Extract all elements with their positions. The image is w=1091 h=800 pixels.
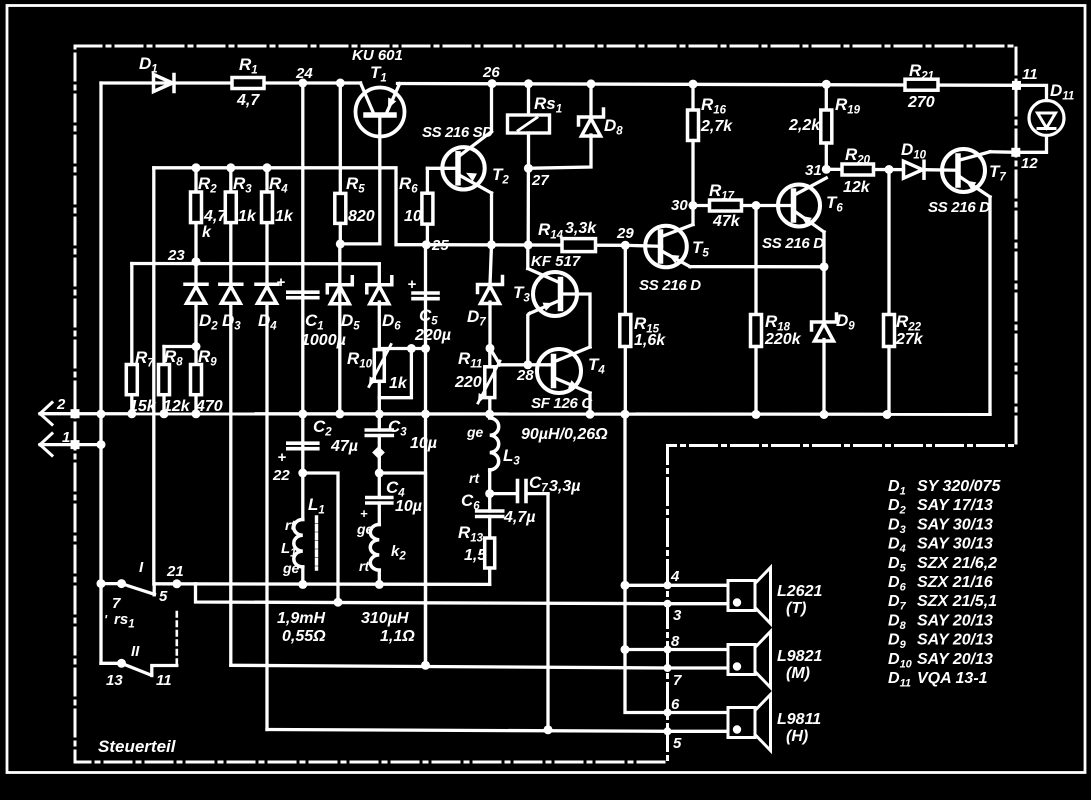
wire C2 column [301, 414, 304, 520]
svg-text:+: + [278, 449, 287, 466]
svg-text:KU 601: KU 601 [352, 47, 403, 64]
wire T2 emitter column [490, 193, 493, 245]
svg-text:5: 5 [159, 588, 168, 605]
resistor R15 [620, 245, 666, 414]
zener diode D7 [467, 277, 503, 329]
wire D7 to T4 base [490, 348, 500, 365]
resistor R3 [225, 168, 257, 225]
svg-text:rt: rt [359, 558, 370, 574]
zener diode D9 [812, 267, 856, 341]
svg-text:SY 320/075: SY 320/075 [917, 478, 1001, 495]
junction C5 R10 wire [421, 344, 430, 353]
svg-text:7: 7 [112, 595, 121, 612]
svg-text:SS 216 D: SS 216 D [762, 235, 824, 252]
svg-text:SZX 21/16: SZX 21/16 [917, 574, 993, 591]
svg-text:SAY 30/13: SAY 30/13 [917, 516, 993, 533]
svg-text:4: 4 [670, 568, 680, 585]
inductor L1 core [315, 517, 318, 569]
junction C6 C7 [485, 489, 494, 498]
svg-text:3,3k: 3,3k [565, 220, 597, 237]
svg-text:13: 13 [106, 672, 123, 689]
svg-text:rt: rt [285, 517, 296, 533]
label k2 inductance [361, 610, 415, 645]
node 28 [516, 360, 534, 384]
wire T6 emitter column [822, 232, 825, 267]
wire D9 to rail [822, 340, 825, 415]
svg-text:26: 26 [482, 64, 500, 81]
svg-text:47k: 47k [712, 213, 741, 230]
wire node26 column [490, 84, 493, 132]
node 29 [616, 225, 634, 250]
wire node 25 row [424, 243, 625, 247]
wire node 24 column [301, 83, 304, 414]
wire T5 emitter row [690, 265, 824, 268]
node 31 [805, 162, 831, 179]
label L1 inductance [277, 610, 326, 645]
wire pin7 to speaker [668, 666, 729, 669]
svg-text:SF 126 C: SF 126 C [531, 395, 593, 412]
zener diode D5 [327, 277, 360, 333]
svg-text:SAY 20/13: SAY 20/13 [917, 612, 993, 629]
pin 4 [664, 568, 681, 589]
wire D8 to node 27 [528, 135, 591, 168]
svg-text:1000µ: 1000µ [301, 332, 346, 349]
junction R18 top [752, 201, 761, 210]
svg-text:Steuerteil: Steuerteil [98, 737, 177, 756]
wire T4 emitter [588, 393, 591, 414]
svg-text:L9821: L9821 [777, 648, 822, 665]
transistor T5 [639, 225, 709, 295]
node 21 [166, 563, 184, 588]
svg-text:7: 7 [673, 672, 682, 689]
wire T3 base to T4 collector [561, 294, 591, 347]
svg-text:4,7: 4,7 [236, 92, 260, 109]
svg-text:220: 220 [454, 374, 482, 391]
svg-text:5: 5 [673, 735, 682, 752]
resistor R7 [126, 264, 156, 416]
junction rail R9 [192, 409, 201, 418]
wire C3 bottom [378, 436, 381, 474]
svg-text:220k: 220k [764, 331, 802, 348]
wire D6 drop [378, 264, 381, 285]
wire T3 emitter column [528, 314, 530, 365]
wire top rail left segment [101, 81, 361, 84]
resistor R21 [905, 61, 938, 111]
svg-text:28: 28 [516, 367, 534, 384]
speaker L9811 [728, 695, 821, 751]
wire D7 column [490, 245, 492, 285]
label rs1 [104, 611, 135, 631]
diode D3 [220, 223, 242, 333]
svg-text:820: 820 [348, 208, 375, 225]
junction rail C5 [421, 410, 430, 419]
svg-text:11: 11 [1022, 66, 1038, 83]
svg-text:24: 24 [295, 65, 313, 82]
svg-text:4,7µ: 4,7µ [503, 509, 535, 526]
wire C5 column [424, 245, 427, 666]
svg-text:3: 3 [673, 607, 682, 624]
junction R2 top [192, 163, 201, 172]
junction emitter node [820, 262, 829, 271]
svg-text:270: 270 [907, 94, 935, 111]
diode D10 [901, 140, 927, 178]
svg-text:SAY 20/13: SAY 20/13 [917, 651, 993, 668]
relay Rs1 [508, 94, 563, 133]
junction R4 top [263, 163, 272, 172]
resistor R22 [884, 170, 924, 415]
wire pin6 to speaker [668, 711, 729, 714]
svg-text:29: 29 [616, 225, 634, 242]
transistor T1 [352, 47, 405, 137]
transistor T6 [762, 178, 843, 252]
svg-text:1,5: 1,5 [464, 547, 487, 564]
junction C5 pin7 [421, 661, 430, 670]
wire D4 to pin5 column [265, 304, 268, 730]
wire R10 to rail [378, 398, 381, 414]
wire pin5 to speaker [668, 730, 729, 733]
capacitor C5 [408, 276, 451, 344]
junction L1 bottom [298, 580, 307, 589]
junction rail R15 [621, 410, 630, 419]
junction relay top [524, 79, 533, 88]
label Steuerteil [98, 737, 177, 756]
wire pin8 row [625, 648, 728, 651]
pin 8 [664, 633, 681, 654]
svg-text:KF 517: KF 517 [531, 253, 581, 270]
svg-text:1,1Ω: 1,1Ω [380, 628, 415, 645]
svg-text:30: 30 [671, 197, 688, 214]
resistor R8 [159, 347, 191, 416]
svg-text:SS 216 SD: SS 216 SD [422, 124, 493, 141]
pin 5 [664, 727, 683, 752]
svg-text:10µ: 10µ [410, 435, 437, 452]
transistor T3 [513, 253, 581, 316]
junction left col rail [97, 410, 106, 419]
svg-text:ge: ge [466, 424, 484, 440]
node 26 [482, 64, 500, 88]
lamp D11 [1016, 81, 1074, 152]
wire R5 bottom to T1 [336, 239, 380, 248]
wire R10 wiper loop [379, 349, 411, 398]
svg-text:27k: 27k [895, 331, 924, 348]
node 11 frame pin [1012, 66, 1038, 90]
junction R22 top [885, 165, 894, 174]
resistor R18 [751, 206, 802, 415]
svg-text:ge: ge [356, 521, 374, 537]
transistor T7 [928, 149, 1006, 216]
pin 2 frame square [71, 409, 80, 418]
wire speaker feed column [625, 414, 668, 712]
junction rail L3 [485, 410, 494, 419]
svg-text:8: 8 [671, 633, 680, 650]
capacitor C7 [490, 473, 581, 502]
resistor R13 [458, 517, 495, 585]
svg-text:1k: 1k [238, 208, 257, 225]
svg-text:90µH/0,26Ω: 90µH/0,26Ω [521, 426, 608, 443]
junction T2 emitter [487, 240, 496, 249]
junction R5 top [336, 79, 345, 88]
svg-text:SS 216 D: SS 216 D [639, 277, 701, 294]
svg-text:12: 12 [1021, 155, 1038, 172]
node 23 [167, 247, 201, 266]
wire pin3 branch [196, 584, 668, 604]
junction pin8 feed [621, 645, 630, 654]
svg-text:+: + [360, 506, 368, 521]
wire T7 emitter column [988, 197, 991, 414]
svg-text:SZX 21/5,1: SZX 21/5,1 [917, 593, 997, 610]
resistor R4 [262, 168, 294, 225]
svg-text:1,9mH: 1,9mH [277, 610, 325, 627]
diode D4 [256, 223, 278, 333]
svg-text:SAY 30/13: SAY 30/13 [917, 536, 993, 553]
resistor R11 [454, 348, 500, 403]
wire node 23 rail [132, 262, 379, 266]
junction left col switch [97, 579, 106, 588]
svg-text:220µ: 220µ [414, 327, 451, 344]
svg-text:27: 27 [531, 172, 549, 189]
wire pin 1 [40, 443, 101, 446]
pin 6 [664, 696, 681, 717]
zener diode D6 [367, 277, 401, 333]
svg-text:2: 2 [56, 396, 66, 413]
svg-text:(M): (M) [786, 665, 810, 682]
transistor T2 [422, 124, 509, 193]
svg-text:SAY 17/13: SAY 17/13 [917, 497, 993, 514]
svg-text:rt: rt [469, 470, 480, 486]
pin 2 arrow [40, 396, 66, 425]
wire top rail right segment [398, 84, 1017, 86]
wire C3 to pin7 column [379, 473, 425, 665]
svg-text:+: + [277, 274, 286, 291]
resistor R16 [688, 84, 734, 205]
capacitor C3 [366, 414, 437, 459]
pin 1 frame square [71, 440, 80, 449]
svg-text:L2621: L2621 [777, 583, 822, 600]
wire node 21 row [154, 582, 489, 586]
resistor R20 [826, 145, 903, 196]
svg-text:6: 6 [671, 696, 680, 713]
junction pin4 feed [621, 581, 630, 590]
resistor R14 [538, 220, 597, 252]
capacitor C6 [461, 491, 535, 526]
svg-text:1k: 1k [275, 208, 294, 225]
speaker L9821 [728, 632, 822, 688]
svg-text:L9811: L9811 [777, 711, 821, 728]
junction rail D5 [335, 409, 344, 418]
wire T4 base [500, 363, 554, 366]
wire left column [99, 83, 102, 663]
svg-text:10: 10 [404, 208, 422, 225]
diode D1 [139, 54, 174, 92]
wire bottom rail [40, 412, 990, 416]
wire R16 to T5 collector [691, 206, 694, 225]
wire R10 node [379, 344, 425, 353]
svg-text:12k: 12k [843, 179, 871, 196]
wire D5 column [338, 244, 341, 414]
wire relay to node 27 [527, 133, 530, 168]
resistor R17 [693, 181, 794, 230]
svg-text:VQA 13-1: VQA 13-1 [917, 670, 988, 687]
junction rail R18 [752, 410, 761, 419]
junction rail D9 [820, 410, 829, 419]
label L3 inductance [521, 426, 608, 443]
node 22 [272, 467, 307, 484]
node 30 [671, 197, 698, 214]
capacitor C1 [277, 274, 346, 349]
svg-text:SAY 20/13: SAY 20/13 [917, 632, 993, 649]
svg-text:2,7k: 2,7k [700, 118, 733, 135]
junction R3 top [226, 163, 235, 172]
svg-text:k: k [202, 224, 212, 241]
diode D2 [185, 262, 218, 347]
wire T7 collector to node 12 [990, 150, 1016, 154]
resistor R1 [232, 55, 264, 109]
switch rs1 pole I [101, 559, 168, 612]
inductor k2 winding [356, 503, 406, 584]
junction rail R7 [127, 409, 136, 418]
junction R8 R9 bridge [164, 342, 201, 351]
wire R11 to rail [488, 398, 491, 415]
wire R6 to T2 base [427, 167, 458, 170]
svg-text:SZX 21/6,2: SZX 21/6,2 [917, 555, 997, 572]
wire D3 to pin7 column [229, 304, 232, 666]
junction rail T4 [586, 410, 595, 419]
junction D8 top [587, 79, 596, 88]
junction C3 C4 [375, 469, 384, 478]
junction C7 pin5 [544, 725, 553, 734]
wire pin7 row [231, 665, 668, 668]
pin 7 [664, 664, 683, 689]
wire C7 to pin5 row [546, 494, 549, 730]
wire T1 collector column [378, 115, 381, 244]
wire switch feed column [152, 168, 155, 584]
junction rail R8 [160, 409, 169, 418]
inductor L1 winding [281, 495, 325, 584]
junction R16 top [689, 80, 698, 89]
inductor L3 winding [466, 418, 520, 486]
svg-text:II: II [131, 643, 140, 660]
wire L3 to C6 [488, 470, 491, 511]
svg-text:(T): (T) [786, 600, 806, 617]
pin 3 [664, 600, 683, 624]
zener diode D8 [579, 84, 624, 138]
Steuerteil dash-dot boundary frame [75, 46, 1016, 762]
wire node 27 column [527, 168, 531, 245]
speaker L2621 [728, 568, 822, 624]
svg-text:1k: 1k [389, 375, 408, 392]
svg-text:31: 31 [805, 162, 822, 179]
capacitor C4 [360, 473, 422, 521]
resistor R2 [191, 168, 228, 262]
svg-text:0,55Ω: 0,55Ω [282, 628, 326, 645]
wire pin3 to speaker [668, 602, 729, 605]
junction rail R22 [883, 410, 892, 419]
svg-text:22: 22 [272, 467, 290, 484]
switch rs1 pole II [101, 643, 177, 689]
junction D7 R11 [486, 344, 495, 353]
resistor R6 [399, 168, 433, 244]
wire pin4 row [625, 584, 728, 587]
svg-text:+: + [408, 276, 417, 293]
svg-text:(H): (H) [786, 728, 808, 745]
junction node 27 column [524, 240, 533, 249]
wire D7 to junction [488, 302, 491, 348]
capacitor C2 [278, 417, 358, 466]
resistor R5 [335, 83, 375, 244]
wire D10 to T7 [925, 168, 959, 172]
resistor R9 [191, 347, 223, 416]
node 25 [422, 237, 450, 254]
svg-text:23: 23 [167, 247, 185, 264]
wire R2-R4 rail [154, 168, 424, 245]
svg-text:2,2k: 2,2k [788, 117, 821, 134]
junction R19 top [822, 80, 831, 89]
node 12 frame pin [1011, 148, 1038, 172]
svg-text:1,6k: 1,6k [634, 332, 666, 349]
junction rail C1C2 [298, 409, 307, 418]
junction left col arrow1 [97, 440, 106, 449]
transistor T4 [531, 347, 605, 412]
wire relay column [527, 84, 530, 115]
wire T5 base [625, 245, 661, 246]
svg-text:3,3µ: 3,3µ [549, 478, 580, 495]
junction rail R10C3 [375, 410, 384, 419]
wire node 22 branch [303, 473, 343, 607]
switch linkage [176, 612, 179, 663]
svg-text:21: 21 [166, 563, 184, 580]
wire T3 collector column [526, 245, 529, 269]
wire D6 to R10 [378, 302, 381, 350]
pin 1 arrow [40, 429, 70, 456]
node 24 [295, 65, 313, 88]
resistor R19 [788, 84, 861, 169]
trimmer R10 [347, 345, 408, 393]
svg-text:ge: ge [282, 560, 300, 576]
svg-text:25: 25 [431, 237, 449, 254]
svg-text:SS 216 D: SS 216 D [928, 199, 990, 216]
svg-text:11: 11 [156, 672, 172, 689]
junction k2 bottom [375, 580, 384, 589]
svg-text:10µ: 10µ [395, 498, 422, 515]
parts list [888, 478, 1001, 690]
svg-text:47µ: 47µ [330, 438, 358, 455]
svg-text:310µH: 310µH [361, 610, 409, 627]
wire pin5 row [267, 730, 668, 732]
node 27 [524, 164, 549, 189]
